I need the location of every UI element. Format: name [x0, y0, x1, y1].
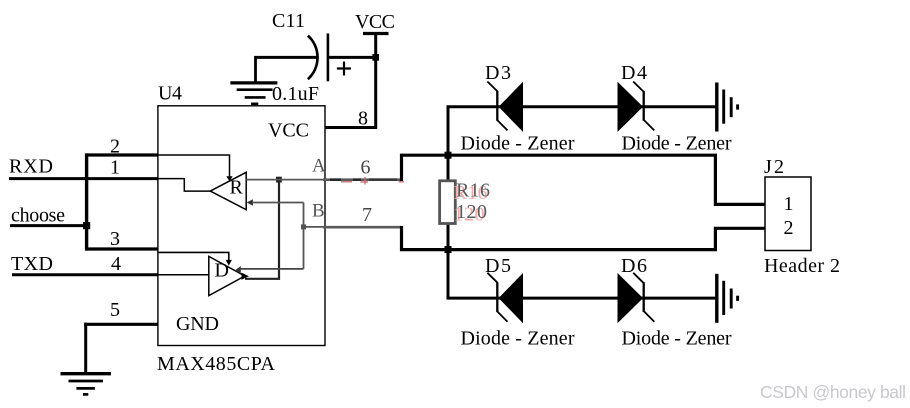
- svg-text:4: 4: [111, 253, 121, 275]
- wire red marks: [341, 177, 404, 185]
- svg-text:1: 1: [784, 193, 794, 215]
- diode D6: [618, 255, 732, 350]
- wire diode rows + center stub: [448, 107, 715, 298]
- svg-text:3: 3: [110, 228, 120, 250]
- ground pin 5: [61, 323, 111, 395]
- wire B bus to J2 pin2: [402, 226, 766, 250]
- svg-text:R: R: [230, 177, 244, 199]
- wire D enable: [226, 252, 232, 265]
- wire: [329, 56, 377, 59]
- ground: [230, 56, 277, 104]
- wire choose: [10, 205, 87, 227]
- wire D out to A: [245, 177, 282, 279]
- svg-text:VCC: VCC: [355, 11, 395, 33]
- wire pin6 dark dashes: [330, 178, 397, 181]
- pin 3 wire: [87, 228, 230, 252]
- svg-text:Diode - Zener: Diode - Zener: [622, 133, 732, 155]
- node B / pin 7 wire: [304, 201, 402, 228]
- svg-text:Header 2: Header 2: [764, 255, 840, 277]
- svg-text:D: D: [215, 260, 229, 282]
- svg-text:U4: U4: [158, 83, 182, 105]
- pin 4 wire TXD: [11, 253, 210, 275]
- svg-text:8: 8: [358, 108, 368, 130]
- svg-text:D4: D4: [621, 62, 647, 84]
- svg-text:A: A: [312, 156, 326, 177]
- wire: [255, 56, 317, 59]
- svg-text:2: 2: [784, 217, 794, 239]
- wire R enable: [226, 155, 232, 181]
- svg-text:120: 120: [456, 201, 487, 223]
- svg-text:Diode - Zener: Diode - Zener: [461, 328, 575, 350]
- op-amp R receiver: [210, 172, 246, 209]
- connector J2 Header 2: [764, 156, 840, 277]
- ground bottom right: [717, 274, 738, 323]
- op-amp D driver: [209, 256, 249, 295]
- diode D3: [461, 62, 575, 155]
- node bus left: [85, 153, 88, 250]
- power VCC: [355, 11, 395, 34]
- svg-text:7: 7: [362, 204, 372, 226]
- wire VCC stem to pin 8: [325, 34, 376, 128]
- svg-text:5: 5: [110, 299, 120, 321]
- node A / pin 6 wire: [246, 156, 401, 180]
- svg-text:RXD: RXD: [9, 156, 53, 178]
- svg-text:C11: C11: [272, 10, 305, 32]
- svg-text:Diode - Zener: Diode - Zener: [461, 133, 575, 155]
- junction: [445, 152, 452, 159]
- svg-text:R16: R16: [456, 180, 490, 202]
- capacitor C11: [272, 10, 351, 105]
- junction: [83, 222, 90, 229]
- resistor R16: [440, 180, 490, 226]
- pin 5 wire: [84, 299, 158, 324]
- svg-text:J2: J2: [764, 156, 784, 178]
- svg-text:2: 2: [110, 136, 120, 158]
- svg-text:CSDN @honey ball: CSDN @honey ball: [760, 382, 906, 402]
- wire D out to B: [235, 227, 304, 273]
- svg-text:D3: D3: [485, 62, 511, 84]
- ground top right: [717, 83, 738, 132]
- junction: [301, 224, 306, 229]
- junction: [445, 246, 452, 253]
- svg-text:TXD: TXD: [11, 253, 53, 275]
- pin 2 wire: [87, 136, 231, 158]
- wire R input B: [247, 199, 304, 227]
- diode D4: [618, 62, 732, 155]
- junction: [372, 54, 379, 61]
- svg-text:1: 1: [110, 157, 120, 179]
- svg-text:Diode - Zener: Diode - Zener: [622, 328, 732, 350]
- wire A bus to J2 pin1: [402, 155, 766, 204]
- svg-text:6: 6: [361, 157, 371, 179]
- wire R output: [184, 179, 210, 192]
- svg-text:VCC: VCC: [268, 120, 309, 142]
- svg-text:0.1uF: 0.1uF: [272, 83, 319, 105]
- diode D5: [461, 255, 575, 350]
- svg-text:GND: GND: [176, 313, 219, 335]
- op-amp U4 chip box MAX485CPA: [157, 83, 325, 376]
- pin 1 wire RXD: [9, 156, 185, 179]
- svg-text:MAX485CPA: MAX485CPA: [157, 353, 276, 375]
- svg-text:B: B: [312, 201, 325, 222]
- svg-text:choose: choose: [11, 205, 65, 227]
